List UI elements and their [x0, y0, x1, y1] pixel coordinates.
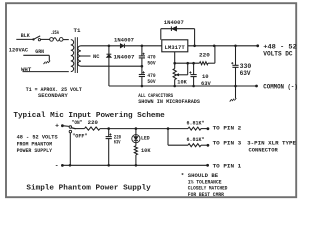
- label .25A: [50, 29, 59, 36]
- note T1 approx: [26, 86, 83, 99]
- label 63V C3: [201, 80, 211, 87]
- svg-text:SHOWN IN MICROFARADS: SHOWN IN MICROFARADS: [138, 98, 200, 105]
- label ON: [72, 119, 83, 126]
- svg-text:"ON": "ON": [72, 119, 83, 126]
- node C3 top junction: [192, 62, 195, 65]
- switch S2 phantom on-off: [69, 126, 75, 133]
- svg-text:TO PIN 1: TO PIN 1: [213, 162, 242, 169]
- label TO PIN 1: [213, 162, 242, 169]
- potentiometer R2 10K: [173, 63, 176, 86]
- svg-text:6.81K*: 6.81K*: [187, 120, 205, 127]
- svg-text:10K: 10K: [141, 147, 151, 154]
- node minus terminal: [61, 164, 64, 167]
- wire switch to fuse: [41, 38, 50, 40]
- node C2 bottom junction: [141, 85, 144, 88]
- resistor R5 6.81K: [188, 127, 207, 130]
- diode D1 1N4007: [120, 44, 124, 48]
- label plus terminal: [55, 123, 59, 130]
- svg-text:.25A: .25A: [50, 29, 59, 36]
- wire phantom bottom rail: [62, 164, 207, 166]
- label 1N4007 D3: [164, 19, 184, 26]
- node ADJ junction: [173, 62, 176, 65]
- note phantom source: [17, 133, 59, 154]
- label 120VAC: [9, 47, 29, 54]
- label 220 C5: [114, 134, 122, 141]
- label 3-PIN XLR TYPE: [247, 140, 296, 154]
- wire ADJ pin: [174, 52, 176, 63]
- wire common rail: [109, 85, 257, 87]
- node pin2 terminal: [207, 127, 210, 130]
- svg-text:10: 10: [202, 73, 209, 80]
- label 63V C4: [240, 70, 251, 77]
- wire OFF to common: [69, 133, 71, 166]
- transformer T1 secondary: [78, 46, 81, 66]
- label 6.81K R5: [187, 120, 205, 127]
- label 330 C4: [240, 63, 252, 70]
- label TO PIN 2: [213, 124, 242, 131]
- label 10K R2: [177, 79, 187, 86]
- svg-text:1N4007: 1N4007: [164, 19, 184, 26]
- node output terminal: [256, 44, 259, 47]
- diode D2 1N4007: [107, 54, 112, 57]
- node common terminal: [255, 85, 258, 88]
- svg-text:GRN: GRN: [35, 48, 44, 55]
- label minus terminal: [55, 162, 59, 169]
- label 6.81K R6: [187, 136, 205, 143]
- svg-text:TO PIN 2: TO PIN 2: [213, 124, 242, 131]
- wire secondary centre tap: [81, 55, 91, 57]
- label LM317T: [165, 44, 186, 51]
- svg-text:POWER SUPPLY: POWER SUPPLY: [17, 147, 53, 154]
- label OFF: [72, 133, 87, 140]
- node C5 bottom junction: [107, 164, 110, 167]
- svg-text:T1: T1: [74, 27, 82, 34]
- svg-text:330: 330: [240, 63, 252, 70]
- label NC: [93, 53, 100, 60]
- label BLK: [21, 32, 30, 39]
- svg-text:1N4007: 1N4007: [114, 53, 135, 60]
- svg-text:"OFF": "OFF": [72, 133, 87, 140]
- svg-text:63V: 63V: [114, 138, 121, 145]
- diode D3 1N4007 protection: [161, 26, 195, 45]
- node R4 bottom junction: [135, 164, 138, 167]
- ground GRN safety: [44, 61, 51, 65]
- wire centre rail: [81, 65, 142, 67]
- node R2 top junction: [213, 45, 216, 48]
- node C1 top junction: [141, 45, 144, 48]
- wire R2 wiper: [176, 63, 188, 76]
- wire to R5: [168, 128, 188, 130]
- label T1: [74, 27, 82, 34]
- svg-text:FOR BEST CMRR: FOR BEST CMRR: [188, 191, 225, 198]
- svg-text:LM317T: LM317T: [165, 44, 186, 51]
- node wiper junction: [186, 62, 189, 65]
- svg-text:Simple Phantom Power Supply: Simple Phantom Power Supply: [26, 184, 151, 192]
- capacitor C5 220uF: [106, 129, 112, 166]
- label +48 - 52: [263, 44, 297, 51]
- node C1 C2 junction: [141, 65, 144, 68]
- svg-text:*: *: [181, 172, 185, 179]
- title typical mic input powering scheme: [13, 112, 164, 120]
- node C5 top junction: [107, 127, 110, 130]
- label 63V C5: [114, 138, 121, 145]
- capacitor C4 330uF: [231, 46, 238, 86]
- capacitor C2 470uF: [139, 66, 145, 86]
- wire output rail: [188, 45, 258, 47]
- LED D4 indicator: [132, 129, 140, 143]
- node feed split junction: [167, 127, 170, 130]
- label 220 R3: [88, 119, 99, 126]
- label 470 C2: [147, 72, 156, 79]
- resistor R4 10K: [134, 143, 137, 166]
- svg-text:10K: 10K: [177, 79, 187, 86]
- node C3 bottom junction: [192, 85, 195, 88]
- label COMMON (-): [263, 83, 298, 90]
- svg-text:VOLTS DC: VOLTS DC: [263, 50, 293, 57]
- resistor R3 220: [85, 127, 101, 130]
- node pin1 terminal: [206, 164, 209, 167]
- svg-text:220: 220: [199, 51, 210, 58]
- capacitor C1 470uF: [139, 46, 145, 66]
- label 10 C3: [202, 73, 209, 80]
- label WHT: [21, 66, 32, 73]
- svg-text:SECONDARY: SECONDARY: [38, 92, 68, 99]
- label 10K R4: [141, 147, 151, 154]
- svg-text:+: +: [55, 123, 59, 130]
- node C4 top junction: [234, 45, 237, 48]
- wire phantom top rail: [75, 128, 168, 130]
- node C4 bottom junction: [234, 85, 237, 88]
- svg-text:63V: 63V: [240, 70, 251, 77]
- regulator U1 LM317T: [162, 40, 188, 52]
- label VOLTS DC: [263, 50, 293, 57]
- label LED: [141, 135, 150, 142]
- wire D2 column: [108, 46, 110, 86]
- node LED top junction: [135, 127, 138, 130]
- svg-text:120VAC: 120VAC: [9, 47, 29, 54]
- wire WHT neutral lead: [23, 71, 69, 73]
- wire feed branch: [168, 129, 188, 146]
- svg-text:LED: LED: [141, 135, 150, 142]
- svg-text:50V: 50V: [147, 60, 156, 67]
- label TO PIN 3: [213, 140, 242, 147]
- wire D1 to LM317 input: [124, 45, 161, 47]
- svg-text:NC: NC: [93, 53, 100, 60]
- wire BLK hot lead: [16, 38, 33, 40]
- label GRN: [35, 48, 44, 55]
- note all capacitors: [138, 92, 200, 105]
- svg-text:BLK: BLK: [21, 32, 30, 39]
- label 50V C1: [147, 60, 156, 67]
- capacitor C3 10uF: [189, 63, 196, 86]
- svg-text:63V: 63V: [201, 80, 211, 87]
- node plus terminal: [61, 124, 64, 127]
- label 1N4007 D2: [114, 53, 135, 60]
- resistor R6 6.81K: [188, 144, 207, 147]
- resistor R1 220: [200, 62, 209, 65]
- svg-text:TO PIN 3: TO PIN 3: [213, 140, 242, 147]
- wire fuse to T1 primary: [63, 39, 69, 41]
- ground output common: [230, 86, 237, 102]
- label 50V C2: [147, 78, 156, 85]
- label 220 R1: [199, 51, 210, 58]
- transformer T1 core: [75, 37, 77, 73]
- svg-text:CONNECTOR: CONNECTOR: [249, 146, 279, 153]
- title simple phantom power supply: [26, 184, 151, 192]
- node R2 bottom junction: [173, 85, 176, 88]
- fuse F1 .25A: [50, 38, 63, 42]
- svg-text:220: 220: [88, 119, 99, 126]
- svg-text:6.81K*: 6.81K*: [187, 136, 205, 143]
- node pin3 terminal: [207, 144, 210, 147]
- transformer T1 primary: [71, 40, 74, 72]
- wire plus lead: [64, 125, 70, 128]
- note tolerance: [181, 172, 228, 198]
- svg-text:-: -: [55, 162, 59, 169]
- svg-text:1N4007: 1N4007: [114, 36, 134, 43]
- node rectifier input junction: [108, 45, 111, 48]
- label 1N4007 D1: [114, 36, 134, 43]
- wire top rail secondary to D1: [81, 45, 120, 47]
- node OFF common junction: [69, 164, 72, 167]
- label 470 C1: [147, 53, 156, 60]
- wire ADJ rail: [175, 46, 215, 63]
- switch S1 power: [32, 36, 40, 41]
- node D3 output junction: [193, 45, 196, 48]
- svg-text:COMMON (-): COMMON (-): [263, 83, 298, 90]
- wire GRN lead: [23, 55, 49, 60]
- svg-text:50V: 50V: [147, 78, 156, 85]
